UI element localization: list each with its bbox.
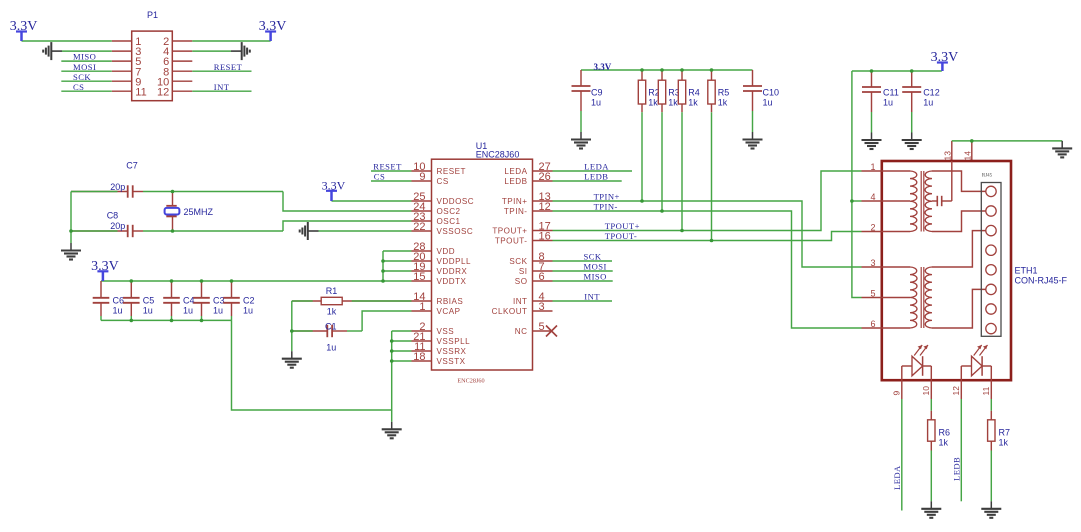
svg-text:RBIAS: RBIAS (437, 297, 464, 306)
svg-text:1k: 1k (939, 437, 949, 447)
svg-text:TPOUT-: TPOUT- (605, 231, 637, 241)
svg-text:C3: C3 (213, 296, 225, 306)
svg-text:TPOUT-: TPOUT- (495, 236, 528, 245)
svg-text:12: 12 (951, 386, 961, 396)
svg-text:SCK: SCK (584, 252, 602, 262)
svg-text:TPOUT+: TPOUT+ (605, 221, 640, 231)
svg-text:3: 3 (870, 258, 875, 268)
svg-text:CS: CS (73, 82, 84, 92)
svg-text:11: 11 (981, 386, 991, 395)
svg-text:MOSI: MOSI (73, 62, 96, 72)
svg-text:INT: INT (513, 297, 528, 306)
svg-text:1u: 1u (923, 97, 933, 107)
svg-text:3.3V: 3.3V (322, 178, 346, 192)
svg-text:1k: 1k (327, 306, 337, 316)
svg-text:12: 12 (157, 86, 169, 98)
svg-text:VSSPLL: VSSPLL (437, 337, 471, 346)
svg-text:4: 4 (870, 192, 875, 202)
svg-text:3.3V: 3.3V (10, 19, 38, 34)
svg-text:12: 12 (539, 201, 551, 213)
svg-text:1u: 1u (763, 97, 773, 107)
svg-text:VCAP: VCAP (437, 307, 461, 316)
svg-text:R1: R1 (326, 286, 338, 296)
svg-text:VDDPLL: VDDPLL (437, 257, 472, 266)
svg-text:2: 2 (870, 223, 875, 233)
svg-text:18: 18 (413, 351, 425, 363)
svg-text:R5: R5 (718, 87, 730, 97)
svg-text:LEDB: LEDB (584, 172, 608, 182)
svg-text:TPOUT+: TPOUT+ (492, 226, 527, 235)
svg-text:VDDTX: VDDTX (437, 277, 467, 286)
svg-text:VDD: VDD (437, 247, 456, 256)
svg-text:1u: 1u (143, 306, 153, 316)
svg-text:3.3V: 3.3V (931, 50, 959, 65)
svg-text:10: 10 (921, 386, 931, 396)
svg-text:RESET: RESET (214, 62, 243, 72)
svg-text:INT: INT (584, 292, 600, 302)
svg-text:C9: C9 (591, 87, 603, 97)
svg-text:1k: 1k (718, 97, 728, 107)
svg-text:C7: C7 (126, 161, 138, 171)
svg-text:1u: 1u (213, 306, 223, 316)
svg-text:P1: P1 (147, 10, 158, 20)
svg-text:SCK: SCK (73, 72, 91, 82)
svg-text:OSC1: OSC1 (437, 217, 461, 226)
svg-text:VSSOSC: VSSOSC (437, 227, 474, 236)
svg-text:1: 1 (419, 301, 425, 313)
svg-text:ETH1: ETH1 (1015, 266, 1038, 276)
svg-text:CS: CS (437, 177, 449, 186)
svg-text:SCK: SCK (509, 257, 527, 266)
svg-text:ENC28J60: ENC28J60 (457, 378, 484, 385)
svg-text:25MHZ: 25MHZ (184, 207, 214, 217)
svg-text:RJ45: RJ45 (982, 173, 993, 178)
svg-text:5: 5 (539, 321, 545, 333)
svg-text:1: 1 (870, 162, 875, 172)
svg-text:3.3V: 3.3V (91, 259, 119, 274)
svg-text:CON-RJ45-F: CON-RJ45-F (1015, 276, 1068, 286)
svg-text:TPIN-: TPIN- (504, 207, 528, 216)
svg-text:SI: SI (519, 267, 528, 276)
svg-text:LEDA: LEDA (584, 162, 609, 172)
svg-text:15: 15 (413, 271, 425, 283)
svg-text:1u: 1u (326, 343, 336, 353)
svg-text:22: 22 (413, 221, 425, 233)
svg-text:9: 9 (419, 171, 425, 183)
svg-text:13: 13 (942, 151, 952, 161)
svg-text:1k: 1k (999, 437, 1009, 447)
svg-text:20p: 20p (110, 221, 125, 231)
svg-text:MISO: MISO (73, 52, 96, 62)
svg-text:TPIN+: TPIN+ (502, 197, 528, 206)
svg-text:1k: 1k (668, 97, 678, 107)
svg-text:VDDRX: VDDRX (437, 267, 468, 276)
svg-text:C6: C6 (113, 296, 125, 306)
svg-text:VSSTX: VSSTX (437, 357, 466, 366)
svg-text:LEDB: LEDB (951, 457, 961, 481)
svg-text:1u: 1u (113, 306, 123, 316)
svg-text:CLKOUT: CLKOUT (492, 307, 528, 316)
svg-text:6: 6 (870, 319, 875, 329)
svg-text:1k: 1k (688, 97, 698, 107)
svg-text:1u: 1u (883, 97, 893, 107)
svg-text:9: 9 (892, 391, 902, 396)
svg-text:MOSI: MOSI (584, 262, 607, 272)
svg-text:C1: C1 (325, 321, 337, 331)
svg-text:VDDOSC: VDDOSC (437, 197, 475, 206)
svg-text:MISO: MISO (584, 272, 607, 282)
svg-text:26: 26 (539, 171, 551, 183)
svg-text:LEDA: LEDA (892, 465, 902, 490)
svg-text:3.3V: 3.3V (259, 19, 287, 34)
svg-text:CS: CS (374, 172, 385, 182)
svg-text:C11: C11 (883, 87, 899, 97)
svg-text:1k: 1k (648, 97, 658, 107)
svg-text:1u: 1u (183, 306, 193, 316)
svg-text:20p: 20p (110, 182, 125, 192)
svg-text:14: 14 (962, 151, 972, 161)
svg-text:C5: C5 (143, 296, 155, 306)
svg-text:RESET: RESET (437, 167, 467, 176)
svg-text:16: 16 (539, 230, 551, 242)
svg-text:NC: NC (515, 327, 528, 336)
svg-text:R6: R6 (939, 427, 951, 437)
svg-text:RESET: RESET (373, 162, 402, 172)
svg-text:C8: C8 (107, 211, 119, 221)
svg-text:5: 5 (870, 289, 875, 299)
svg-text:1u: 1u (591, 97, 601, 107)
svg-text:6: 6 (539, 271, 545, 283)
svg-text:1u: 1u (243, 306, 253, 316)
svg-text:C10: C10 (763, 87, 780, 97)
svg-text:3.3V: 3.3V (594, 62, 612, 72)
svg-text:ENC28J60: ENC28J60 (476, 150, 520, 160)
svg-text:R7: R7 (999, 427, 1011, 437)
svg-text:C2: C2 (243, 296, 255, 306)
svg-text:TPIN-: TPIN- (594, 202, 618, 212)
svg-text:INT: INT (214, 82, 230, 92)
svg-text:VSS: VSS (437, 327, 455, 336)
svg-text:3: 3 (539, 301, 545, 313)
svg-text:LEDB: LEDB (504, 177, 527, 186)
svg-text:SO: SO (515, 277, 528, 286)
svg-text:TPIN+: TPIN+ (594, 192, 620, 202)
svg-text:C4: C4 (183, 296, 195, 306)
svg-text:LEDA: LEDA (504, 167, 527, 176)
svg-text:C12: C12 (923, 87, 940, 97)
svg-text:11: 11 (135, 86, 146, 98)
svg-text:OSC2: OSC2 (437, 207, 461, 216)
svg-text:VSSRX: VSSRX (437, 347, 467, 356)
svg-text:R4: R4 (688, 87, 700, 97)
